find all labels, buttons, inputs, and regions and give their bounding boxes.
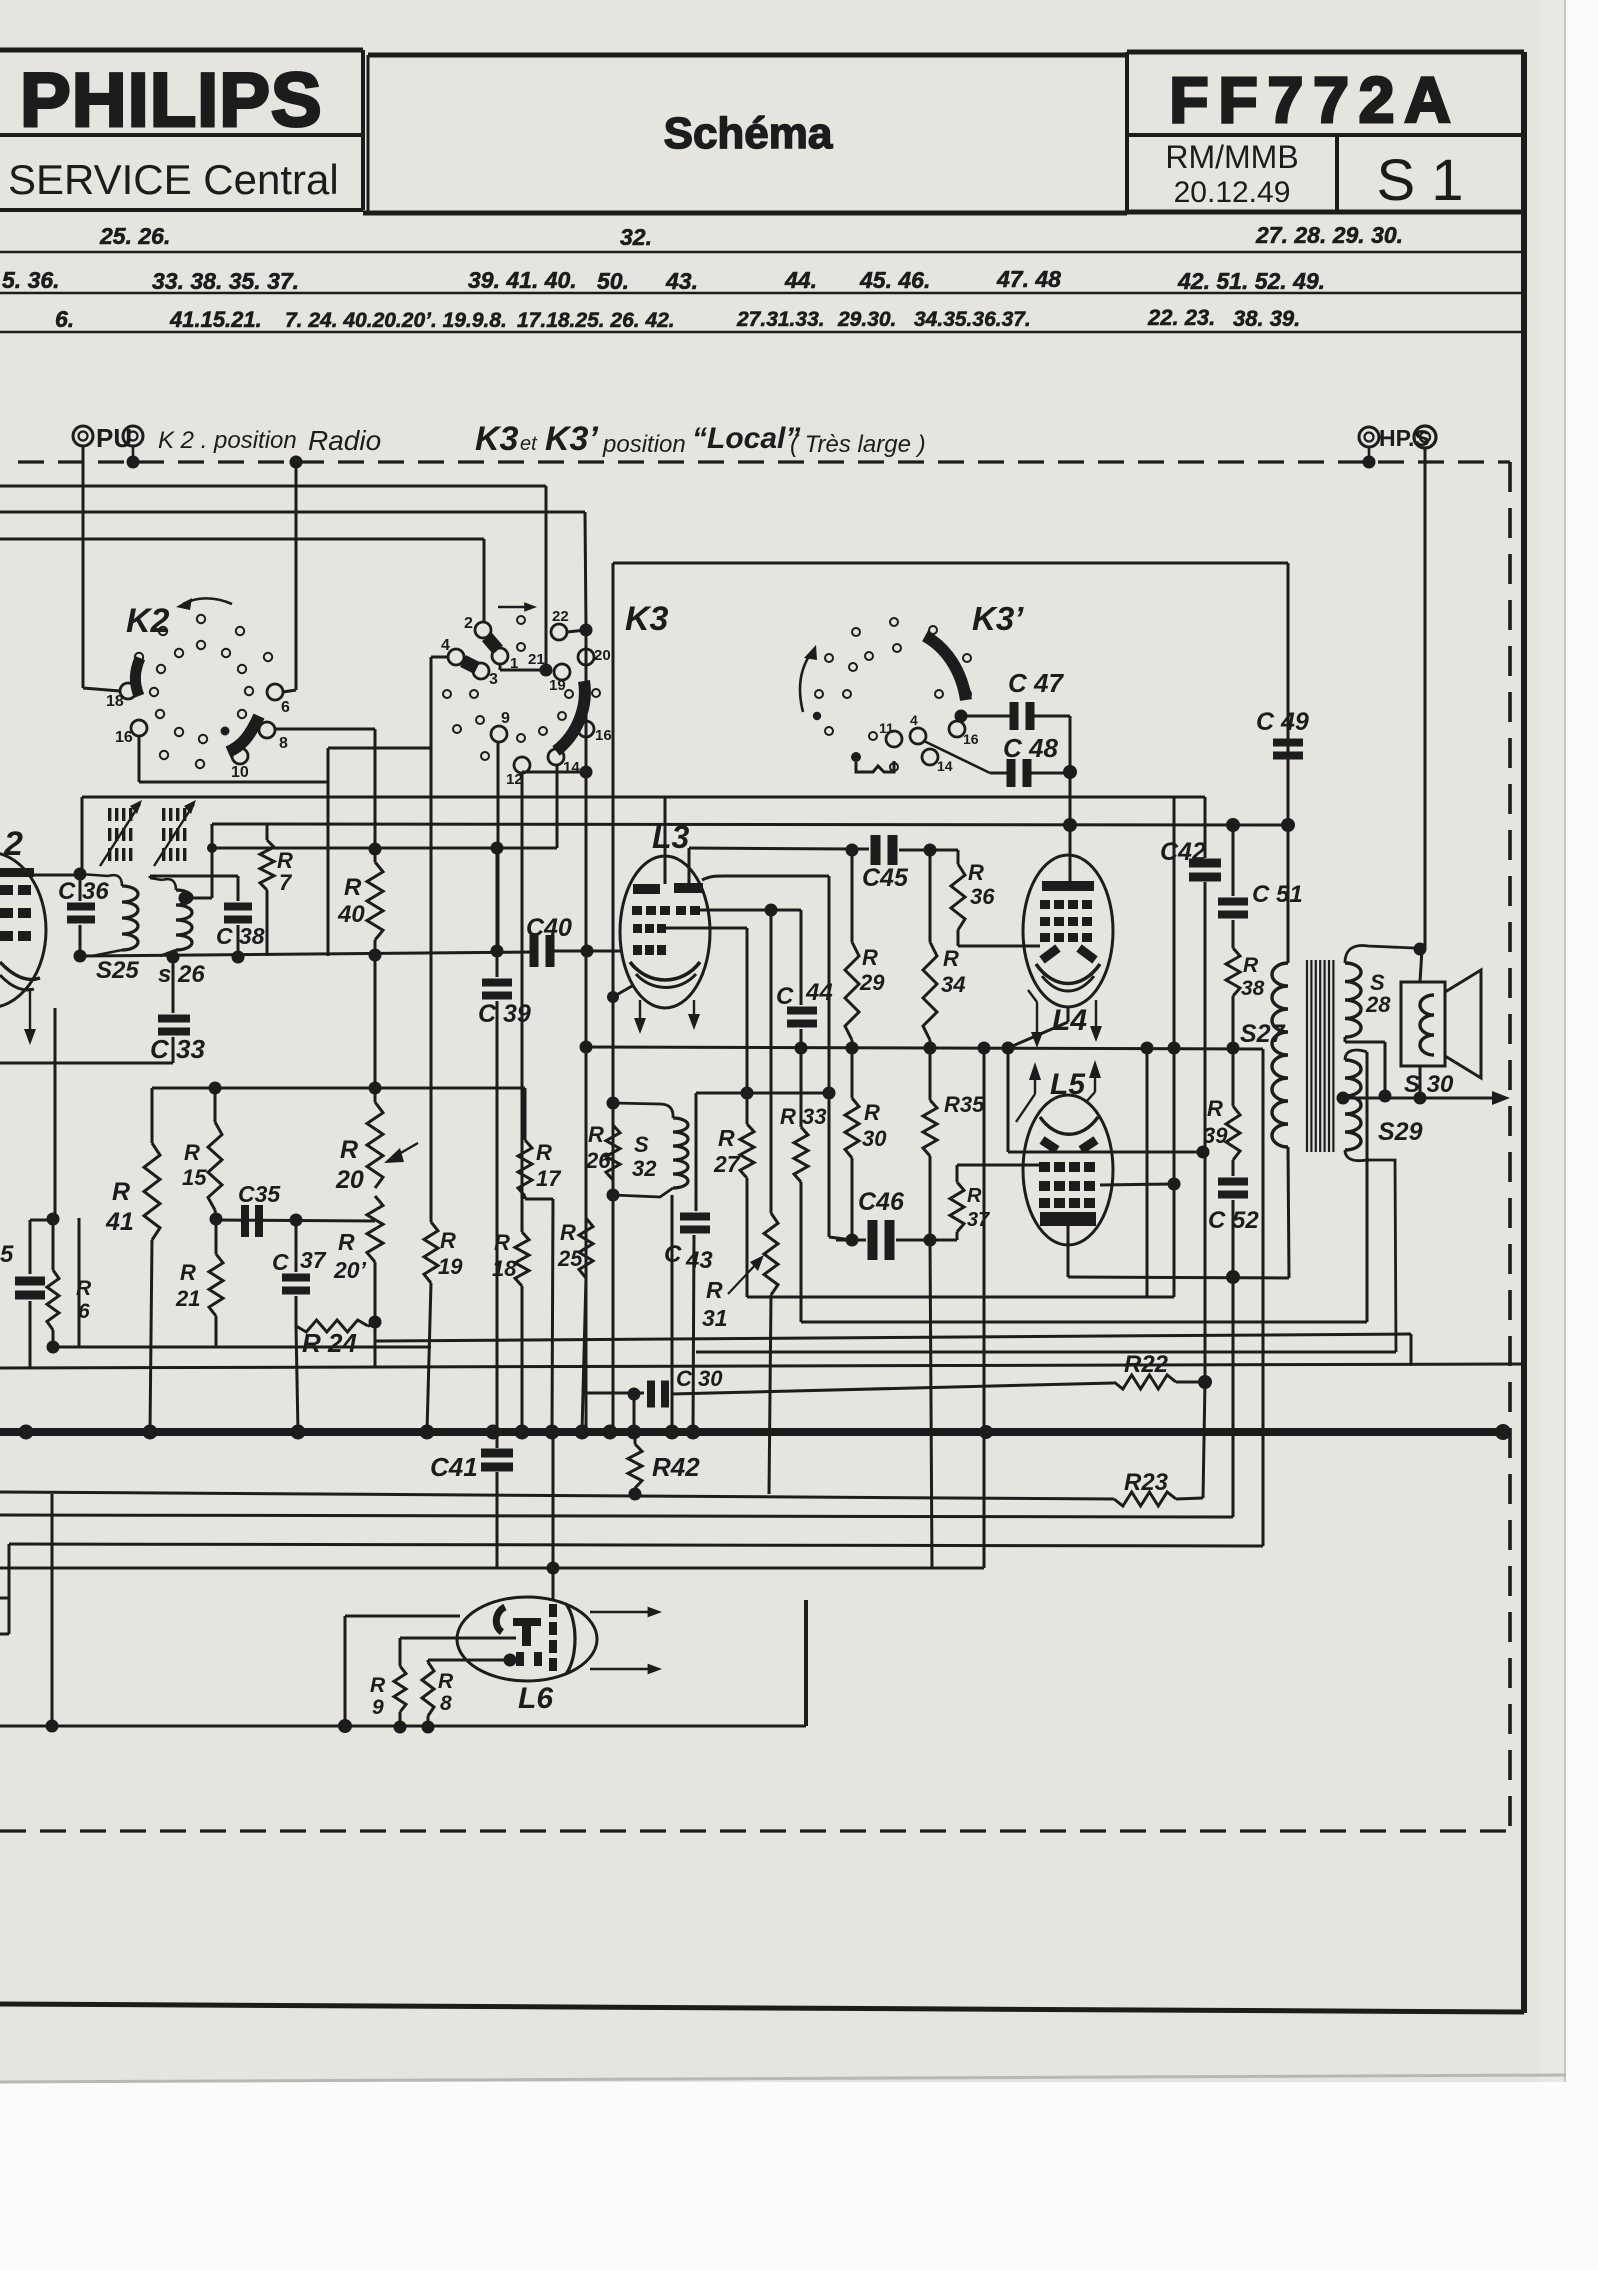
wire x696 drop [695, 1093, 698, 1211]
svg-text:16: 16 [595, 727, 612, 744]
svg-text:R 33: R 33 [780, 1104, 826, 1129]
wire K3 pin9 drop [497, 742, 500, 951]
resistor R15 [208, 1088, 222, 1219]
label C49 [1256, 708, 1309, 736]
svg-text:C46: C46 [858, 1188, 905, 1216]
capacitor C41 [481, 1432, 513, 1568]
svg-text:C42: C42 [1160, 838, 1206, 866]
junction y1277 x1233b [1232, 1277, 1234, 1279]
junction x553 y1568 [547, 1562, 560, 1600]
svg-text:7: 7 [279, 870, 293, 895]
wire S28 top lead [1345, 946, 1414, 963]
wire K3 column x586 [585, 630, 588, 1432]
svg-text:18: 18 [492, 1256, 517, 1281]
wire C33 down [172, 1037, 175, 1063]
tube L4 top bar [1042, 881, 1094, 891]
label R18 [492, 1230, 517, 1281]
label S30 [1404, 1071, 1454, 1098]
tube L4 arrow right [1090, 1000, 1102, 1042]
resistor R20prime [367, 1196, 383, 1368]
junction S32 bottom [607, 1189, 620, 1202]
tube L4 deflector right [1079, 948, 1095, 960]
junction S25 bottom [74, 950, 87, 963]
svg-text:30: 30 [862, 1126, 887, 1151]
resistor R42 [628, 1432, 642, 1494]
switch K3 pin 4 [441, 637, 464, 665]
SERVICE Central text [8, 156, 339, 203]
wire x79 drop [77, 1218, 80, 1347]
svg-text:s 26: s 26 [158, 961, 205, 988]
switch K3 pin 9 [491, 710, 510, 742]
svg-text:26: 26 [585, 1148, 611, 1173]
tube L6 output arrow top [590, 1607, 662, 1618]
tube L2 cathode arc [0, 962, 40, 990]
resistor R34 [923, 850, 937, 1048]
wire y848 [207, 843, 557, 853]
label R17 [536, 1140, 562, 1191]
svg-text:50.: 50. [597, 268, 629, 294]
svg-text:C 36: C 36 [58, 878, 109, 905]
label R6 [76, 1277, 92, 1323]
wire C45 row [852, 848, 869, 851]
label R34 [941, 946, 965, 997]
svg-text:2: 2 [464, 615, 473, 632]
svg-text:19: 19 [438, 1254, 463, 1279]
capacitor C46 [868, 1220, 895, 1260]
label S25 [96, 957, 139, 984]
tube L3 top lead [664, 797, 667, 884]
junction R8 bottom [422, 1721, 435, 1734]
header PHILIPS box [0, 50, 363, 210]
wire R37 to L5 grid [957, 1164, 1039, 1167]
label C51 [1252, 881, 1303, 908]
svg-text:R35: R35 [944, 1092, 985, 1117]
RM/MMB text [1165, 139, 1298, 175]
trimmer cap 2 [154, 800, 196, 866]
switch K3 pin 20 [578, 647, 611, 665]
svg-text:6: 6 [281, 699, 290, 716]
tube L4 label [1052, 1004, 1087, 1037]
coil S28 [1345, 963, 1361, 1037]
wire drop x546 to K3 pin21 [545, 486, 548, 668]
svg-text:R: R [943, 946, 959, 971]
junction y1152 x1203 [1197, 1146, 1210, 1159]
parts row line 1 [0, 251, 1524, 253]
resistor R9 [394, 1638, 516, 1726]
wire K2 pin8 to x375 [275, 728, 375, 731]
svg-text:R: R [706, 1277, 723, 1303]
switch K2 pin 10 [231, 748, 249, 781]
label R15 [182, 1140, 207, 1190]
junction C48 node [1063, 765, 1077, 779]
svg-text:20’: 20’ [333, 1257, 367, 1283]
wire C46 row right [896, 1239, 957, 1242]
wire y1093 [696, 1092, 829, 1095]
resistor R24 [296, 1320, 375, 1332]
tube L3 arrow right [688, 1000, 700, 1030]
wire x1411 drop [1410, 1334, 1413, 1366]
svg-text:R: R [1207, 1096, 1223, 1121]
bus junction 610 [603, 1425, 618, 1440]
label C5 [0, 1241, 14, 1268]
svg-text:Schéma: Schéma [664, 109, 833, 158]
junction R24 right [369, 1316, 382, 1329]
bus junction 522 [515, 1425, 530, 1440]
svg-text:K3: K3 [475, 420, 519, 458]
wire R23 right [1176, 1498, 1203, 1499]
FF772A box [1127, 52, 1524, 212]
tube L4 cathode arc [1036, 964, 1100, 991]
junction R34 bottom [924, 1042, 937, 1055]
label C38 [216, 923, 265, 949]
tube L3 grid row 3 [633, 945, 666, 955]
junction C45 right [924, 844, 937, 857]
tube L3 cathode arcs [630, 962, 700, 988]
wire y748 [328, 747, 431, 750]
junction C44 bottom [795, 1042, 808, 1055]
tube L5 grid row2 [1039, 1181, 1095, 1191]
tube L5 deflector right [1081, 1140, 1096, 1150]
switch K3 pin 3 [473, 663, 498, 688]
svg-text:2: 2 [3, 825, 23, 863]
label R25 [557, 1220, 583, 1271]
svg-text:C 47: C 47 [1008, 668, 1064, 698]
svg-text:Radio: Radio [308, 425, 381, 456]
svg-text:32: 32 [632, 1156, 657, 1181]
label S28 [1365, 970, 1391, 1017]
tube L4 grid row3 [1040, 933, 1092, 942]
svg-text:R: R [180, 1260, 196, 1285]
svg-text:47. 48: 47. 48 [996, 266, 1061, 292]
wire x1174 column [1173, 797, 1176, 1184]
label R22 [1124, 1351, 1169, 1378]
switch K3 junction 22 [580, 624, 593, 637]
wire HPS-1 stem [1368, 447, 1371, 462]
capacitor C30 [647, 1381, 669, 1408]
tube L4 top lead [1069, 825, 1072, 881]
wire C45 right [899, 849, 930, 852]
junction x984 bus [979, 1425, 993, 1439]
junction y1098 S29 [1337, 1092, 1350, 1105]
wire K3 pin12 drop [521, 772, 524, 1230]
wire C41 bottom [497, 1567, 553, 1570]
junction S28 bottom [1379, 1090, 1392, 1103]
wire y848 right segment [689, 848, 852, 849]
switch K3' label [972, 600, 1024, 637]
junction R6 bottom [47, 1341, 60, 1354]
speaker frame [1401, 982, 1445, 1066]
wire x1147 column [1141, 1042, 1154, 1298]
wire x497 top [496, 848, 499, 951]
wire S29 top lead [1345, 1050, 1367, 1060]
svg-text:4: 4 [910, 712, 918, 728]
tube L6 envelope [457, 1597, 597, 1681]
junction y1093 x829 [823, 1087, 836, 1100]
svg-text:41: 41 [105, 1208, 134, 1236]
svg-text:S25: S25 [96, 957, 139, 984]
svg-text:31: 31 [702, 1305, 728, 1331]
svg-text:37: 37 [300, 1247, 327, 1273]
tube L3 grid row 2 [633, 924, 666, 933]
wire x375 mid [374, 955, 377, 1088]
bus junction 672 [665, 1425, 680, 1440]
speaker coil [1420, 995, 1434, 1055]
bus junction 26 [19, 1425, 34, 1440]
svg-text:R: R [344, 874, 362, 901]
svg-text:L6: L6 [518, 1682, 553, 1715]
label C43 [664, 1241, 713, 1274]
svg-text:L5: L5 [1050, 1068, 1086, 1101]
wire L2 grid line [0, 874, 80, 877]
coil S26 [150, 878, 192, 956]
resistor R36 [930, 850, 1040, 946]
label C47 [1008, 668, 1064, 698]
junction x55 y1219 [47, 1213, 60, 1226]
svg-text:R: R [864, 1100, 880, 1125]
parts row 1 labels [99, 222, 1403, 250]
wire y1047 [586, 1047, 1263, 1049]
tube L5 bottom lead [1067, 1226, 1070, 1277]
svg-text:L4: L4 [1052, 1004, 1087, 1037]
label R38 [1241, 954, 1265, 1000]
capacitor C35 [241, 1205, 263, 1237]
bus junction 298 [291, 1425, 306, 1440]
junction S32 top [607, 1097, 620, 1110]
wire drop x585 to K3 pin22 node [585, 512, 586, 628]
junction HPS-1 on chassis line [1363, 456, 1376, 469]
junction R38 bottom [1227, 1042, 1240, 1055]
date 20.12.49 text [1174, 176, 1291, 209]
svg-text:45. 46.: 45. 46. [859, 267, 930, 293]
svg-text:R: R [438, 1670, 454, 1693]
label R39 [1203, 1096, 1228, 1148]
svg-text:10: 10 [231, 764, 249, 781]
svg-text:17.18.25. 26. 42.: 17.18.25. 26. 42. [517, 309, 675, 332]
wire y1098 to chassis [1343, 1091, 1510, 1105]
label R42 [652, 1452, 700, 1482]
svg-text:20.12.49: 20.12.49 [1174, 176, 1291, 209]
resistor R30 [845, 1048, 859, 1240]
label R40 [337, 874, 365, 928]
label R21 [175, 1260, 200, 1311]
svg-text:C 51: C 51 [1252, 881, 1303, 908]
tube L5 label [1050, 1068, 1086, 1101]
svg-text:R: R [967, 1185, 982, 1207]
wire y1063 to left edge [0, 1062, 173, 1065]
switch K2 contact dots [135, 615, 272, 768]
tube L5 grid row3 [1039, 1198, 1095, 1208]
svg-text:14: 14 [937, 758, 953, 774]
label R41 [105, 1178, 134, 1236]
wire x672 stub [671, 1195, 674, 1432]
junction C42-R22 [1198, 1375, 1212, 1389]
svg-text:44.: 44. [784, 267, 817, 293]
svg-text:25: 25 [557, 1246, 583, 1271]
label R8 [438, 1670, 454, 1715]
label R27 [713, 1125, 741, 1177]
parts row line 2 [0, 292, 1524, 294]
tube L2 label [3, 825, 23, 863]
resistor R19 [424, 748, 438, 1432]
resistor R39 [1226, 1048, 1240, 1176]
wire y797 right corner [1204, 797, 1207, 858]
wire L3 grid1 out [700, 904, 801, 917]
wire x553 column [552, 1199, 553, 1432]
resistor R38 [1226, 920, 1240, 1048]
wire y1368 [0, 1364, 1524, 1368]
switch K3' rotor arc [925, 636, 966, 700]
svg-text:( Très large ): ( Très large ) [790, 431, 926, 458]
capacitor C36 [67, 874, 95, 956]
svg-text:22: 22 [552, 608, 569, 625]
svg-text:16: 16 [963, 731, 979, 747]
wire y824 [212, 824, 1288, 825]
svg-text:K3’: K3’ [545, 420, 598, 458]
svg-text:R: R [560, 1220, 576, 1245]
wire x932 lower [930, 1240, 932, 1568]
svg-text:43.: 43. [665, 268, 698, 294]
label R30 [862, 1100, 887, 1151]
svg-text:R: R [718, 1125, 735, 1151]
label C30 [676, 1366, 723, 1391]
svg-text:C 30: C 30 [676, 1366, 723, 1391]
label R36 [968, 860, 995, 909]
resistor R22 [1114, 1375, 1176, 1389]
junction y848 x375 [369, 843, 382, 856]
capacitor C45 [871, 835, 898, 865]
label R37 [967, 1185, 990, 1231]
svg-text:R: R [440, 1228, 456, 1253]
svg-text:R: R [1243, 954, 1259, 977]
junction R42 bottom [629, 1488, 642, 1501]
switch K3 bar 2-1 [487, 637, 498, 650]
svg-text:C40: C40 [526, 914, 572, 942]
resistor R21 [209, 1219, 223, 1347]
svg-text:8: 8 [279, 735, 288, 752]
wire y1088 [152, 1087, 525, 1090]
bus junction 150 [143, 1425, 158, 1440]
label R31 [702, 1277, 728, 1331]
tube L6 cathode bracket [496, 1607, 505, 1632]
wire y797 left drop [81, 797, 84, 873]
svg-text:27. 28. 29. 30.: 27. 28. 29. 30. [1255, 222, 1403, 248]
svg-text:33. 38. 35. 37.: 33. 38. 35. 37. [152, 268, 299, 294]
wire y1220 [216, 1220, 375, 1221]
junction y1047 x586 [580, 1041, 593, 1054]
switch K3' blade diagonal [924, 741, 990, 773]
junction y1726 x345 [338, 1719, 352, 1733]
junction L6 pin [504, 1654, 517, 1667]
svg-text:C 48: C 48 [1003, 733, 1058, 763]
svg-text:21: 21 [528, 651, 545, 668]
junction R29 bottom [846, 1042, 859, 1055]
tube L5 arrow left [1016, 1062, 1041, 1122]
tube L4 grid row2 [1040, 917, 1092, 926]
switch K2 rotation arrow [176, 598, 232, 610]
tube L3 anode bars [633, 883, 703, 894]
wire K3 pin1 to 21 [500, 664, 540, 670]
switch K2 label [126, 602, 170, 640]
wire y1340 [375, 1334, 1411, 1341]
IF box right edge [1287, 563, 1290, 737]
wire x1205 lower [1203, 1382, 1205, 1498]
svg-text:“Local”: “Local” [692, 422, 800, 455]
bus junction 582 [575, 1425, 590, 1440]
wire y1347 [53, 1346, 431, 1349]
wire y1277 [1068, 1277, 1289, 1278]
tube L5 anode bar [1040, 1212, 1096, 1226]
svg-text:SERVICE Central: SERVICE Central [8, 156, 339, 203]
label S27 [1240, 1020, 1286, 1048]
junction R9 bottom [394, 1721, 407, 1734]
svg-text:5. 36.: 5. 36. [2, 267, 60, 293]
svg-text:8: 8 [440, 1692, 452, 1715]
resistor R18 [515, 1230, 529, 1432]
tube L5 deflector left [1042, 1140, 1057, 1150]
wire L6 right end [804, 1600, 808, 1726]
svg-text:4: 4 [441, 637, 450, 654]
trimmer cap 1 [100, 800, 142, 866]
svg-text:9: 9 [372, 1696, 384, 1719]
label R29 [859, 945, 885, 995]
label R33 [780, 1104, 826, 1129]
label K2 position Radio [158, 425, 381, 456]
resistor R27 [740, 1093, 754, 1297]
label R20 [335, 1136, 364, 1194]
resistor R40 [367, 850, 383, 955]
svg-text:7. 24. 40.20.20’. 19.9.8.: 7. 24. 40.20.20’. 19.9.8. [285, 309, 507, 332]
wire x553 lower [552, 1432, 555, 1568]
junction R15 bottom [210, 1213, 223, 1226]
wire C30 to R22 [671, 1383, 1114, 1394]
wire x689 into tube anode [688, 848, 691, 884]
capacitor C52 [1218, 1178, 1248, 1199]
svg-text:FF772A: FF772A [1169, 64, 1460, 136]
wire K3 pin4 link [431, 657, 448, 748]
wire PU-2 stem [132, 446, 135, 462]
svg-text:S: S [634, 1132, 649, 1157]
tube L4 bottom lead [1008, 1007, 1068, 1048]
tube L4 arrow left [1028, 990, 1043, 1048]
capacitor C33 [158, 1015, 190, 1036]
bus junction 493 [486, 1425, 501, 1440]
resistor R17 [518, 1088, 553, 1199]
parts row 2 labels [2, 266, 1325, 294]
svg-text:C: C [272, 1249, 289, 1275]
wire x829 column [829, 876, 852, 1240]
junction x1174 grid2 [1168, 1178, 1181, 1191]
switch K3 pin 12 [506, 757, 530, 788]
resistor R23 [1114, 1492, 1176, 1506]
dashed border top [18, 460, 1510, 463]
resistor R29 [845, 850, 859, 1048]
wire y782 [139, 781, 328, 784]
svg-text:21: 21 [175, 1286, 200, 1311]
svg-text:11: 11 [879, 720, 894, 736]
svg-text:S 1: S 1 [1376, 148, 1463, 213]
tube L5 grid1 wire [1038, 1164, 1041, 1167]
switch K3 pin 14 [548, 749, 580, 776]
resistor R7 [260, 824, 274, 956]
tube L3 label [652, 819, 690, 855]
label C46 [858, 1188, 905, 1216]
svg-text:R: R [968, 860, 984, 885]
wire L3 cathode out [607, 986, 632, 1003]
svg-text:R: R [862, 945, 878, 970]
coil S29 [1345, 1060, 1361, 1150]
svg-text:C 38: C 38 [216, 923, 265, 949]
capacitor C5 [15, 1277, 45, 1369]
